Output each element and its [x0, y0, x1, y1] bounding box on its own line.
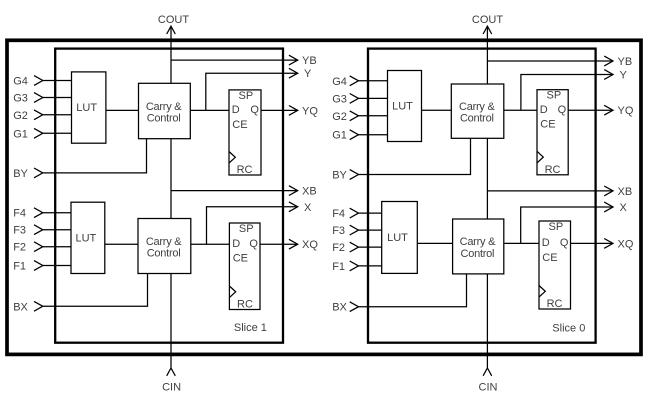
- carry chain wire COUT to top Carry&amp;Control (Slice 1): [170, 26, 172, 83]
- svg-text:YQ: YQ: [302, 105, 318, 117]
- svg-text:G2: G2: [332, 111, 347, 123]
- svg-text:F4: F4: [13, 208, 26, 220]
- svg-text:SP: SP: [239, 223, 254, 235]
- svg-text:G2: G2: [13, 110, 28, 122]
- svg-text:SP: SP: [547, 90, 562, 102]
- LUT (top half, Slice 0): [388, 71, 422, 142]
- svg-text:LUT: LUT: [76, 232, 97, 244]
- svg-text:YB: YB: [618, 56, 633, 68]
- COUT arrow (Slice 1): [167, 26, 176, 34]
- svg-text:RC: RC: [547, 298, 563, 310]
- svg-text:BX: BX: [332, 302, 347, 314]
- svg-text:RC: RC: [237, 299, 253, 311]
- svg-text:F2: F2: [332, 242, 345, 254]
- svg-text:F2: F2: [13, 242, 26, 254]
- svg-text:Q: Q: [558, 104, 567, 116]
- svg-text:D: D: [232, 238, 240, 250]
- svg-text:Carry &: Carry &: [460, 236, 496, 248]
- carry chain wire between Carry&amp;Control blocks (Slice 1): [170, 139, 172, 219]
- svg-text:YB: YB: [302, 55, 317, 67]
- svg-text:Slice 1: Slice 1: [234, 322, 267, 334]
- output XQ (Slice 1): [260, 243, 298, 245]
- svg-text:F1: F1: [13, 261, 26, 273]
- svg-text:CIN: CIN: [162, 381, 181, 393]
- Slice 0 box: [368, 49, 596, 343]
- output YQ (Slice 0): [568, 109, 613, 111]
- output Y (Slice 1): [206, 73, 298, 110]
- svg-text:SP: SP: [239, 90, 254, 102]
- wire Carry&amp;Control to FF D (bottom, Slice 1): [191, 243, 230, 245]
- CLB outer boundary: [7, 40, 641, 354]
- svg-text:CE: CE: [540, 119, 555, 131]
- svg-text:Carry &: Carry &: [459, 101, 495, 113]
- output XQ (Slice 0): [571, 242, 614, 244]
- svg-text:G1: G1: [332, 130, 347, 142]
- Carry &amp; Control (bottom half, Slice 0): [453, 219, 504, 274]
- svg-text:X: X: [304, 202, 312, 214]
- carry chain wire between Carry&amp;Control blocks (Slice 0): [486, 138, 488, 219]
- svg-text:D: D: [540, 104, 548, 116]
- wire Carry&amp;Control to FF D (top, Slice 0): [504, 109, 537, 111]
- svg-text:Y: Y: [620, 70, 628, 82]
- svg-text:LUT: LUT: [387, 232, 408, 244]
- svg-text:F4: F4: [332, 208, 345, 220]
- svg-text:XQ: XQ: [618, 238, 634, 250]
- svg-text:D: D: [232, 104, 240, 116]
- output XB (Slice 0): [487, 190, 613, 192]
- svg-text:SP: SP: [549, 221, 564, 233]
- output X (Slice 1): [207, 207, 298, 244]
- svg-text:Control: Control: [147, 247, 181, 259]
- svg-text:XB: XB: [302, 186, 317, 198]
- svg-text:F3: F3: [13, 225, 26, 237]
- svg-text:Control: Control: [460, 113, 494, 125]
- svg-text:X: X: [620, 202, 628, 214]
- flip-flop (bottom half, Slice 0): [539, 221, 571, 310]
- LUT (top half, Slice 1): [72, 72, 106, 143]
- output XB (Slice 1): [171, 190, 298, 192]
- svg-text:F3: F3: [332, 225, 345, 237]
- carry chain wire bottom Carry&amp;Control to CIN (Slice 1): [170, 274, 172, 369]
- svg-text:Q: Q: [560, 237, 569, 249]
- svg-text:CE: CE: [232, 119, 247, 131]
- svg-text:Slice 0: Slice 0: [552, 323, 585, 335]
- wire LUT to Carry&amp;Control (top, Slice 1): [106, 109, 139, 111]
- svg-text:XB: XB: [618, 186, 633, 198]
- svg-text:Control: Control: [461, 248, 495, 260]
- svg-text:Q: Q: [250, 104, 259, 116]
- LUT (bottom half, Slice 0): [382, 202, 418, 274]
- output YB (Slice 0): [487, 60, 613, 62]
- flip-flop (top half, Slice 1): [229, 90, 261, 176]
- carry chain wire COUT to top Carry&amp;Control (Slice 0): [486, 26, 488, 84]
- output YB (Slice 1): [171, 59, 298, 61]
- flip-flop (bottom half, Slice 1): [229, 223, 260, 311]
- svg-text:COUT: COUT: [472, 14, 503, 26]
- CIN arrow (Slice 0): [483, 368, 492, 376]
- svg-text:Q: Q: [249, 238, 258, 250]
- svg-text:RC: RC: [237, 164, 253, 176]
- svg-text:COUT: COUT: [158, 14, 189, 26]
- svg-text:XQ: XQ: [302, 239, 318, 251]
- svg-text:F1: F1: [332, 261, 345, 273]
- svg-text:BY: BY: [332, 170, 347, 182]
- Carry &amp; Control (bottom half, Slice 1): [138, 219, 191, 274]
- svg-text:YQ: YQ: [618, 105, 634, 117]
- wire LUT to Carry&amp;Control (bottom, Slice 1): [105, 243, 138, 245]
- LUT (bottom half, Slice 1): [71, 202, 105, 273]
- svg-text:BY: BY: [13, 168, 28, 180]
- svg-text:LUT: LUT: [392, 101, 413, 113]
- svg-text:LUT: LUT: [76, 102, 97, 114]
- svg-text:CE: CE: [233, 253, 248, 265]
- svg-text:G1: G1: [13, 128, 28, 140]
- wire LUT to Carry&amp;Control (bottom, Slice 0): [417, 242, 452, 244]
- wire Carry&amp;Control to FF D (bottom, Slice 0): [504, 242, 539, 244]
- COUT arrow (Slice 0): [483, 26, 492, 34]
- svg-text:G4: G4: [13, 76, 28, 88]
- CIN arrow (Slice 1): [167, 368, 176, 376]
- flip-flop (top half, Slice 0): [537, 90, 568, 176]
- svg-text:G4: G4: [332, 76, 347, 88]
- svg-text:BX: BX: [13, 301, 28, 313]
- svg-text:Carry &: Carry &: [146, 101, 182, 113]
- svg-text:Carry &: Carry &: [146, 236, 182, 248]
- svg-text:CIN: CIN: [479, 381, 498, 393]
- svg-text:RC: RC: [545, 164, 561, 176]
- output X (Slice 0): [521, 207, 613, 243]
- output Y (Slice 0): [521, 75, 613, 111]
- svg-text:Y: Y: [304, 68, 312, 80]
- carry chain wire bottom Carry&amp;Control to CIN (Slice 0): [486, 274, 488, 368]
- Slice 1 box: [55, 49, 283, 343]
- wire Carry&amp;Control to FF D (top, Slice 1): [190, 109, 229, 111]
- Carry &amp; Control (top half, Slice 1): [139, 83, 191, 138]
- svg-text:D: D: [542, 237, 550, 249]
- svg-text:CE: CE: [542, 252, 557, 264]
- Carry &amp; Control (top half, Slice 0): [451, 84, 504, 138]
- svg-text:G3: G3: [13, 93, 28, 105]
- svg-text:Control: Control: [147, 112, 181, 124]
- svg-text:G3: G3: [332, 93, 347, 105]
- output YQ (Slice 1): [261, 109, 298, 111]
- wire LUT to Carry&amp;Control (top, Slice 0): [422, 109, 452, 111]
